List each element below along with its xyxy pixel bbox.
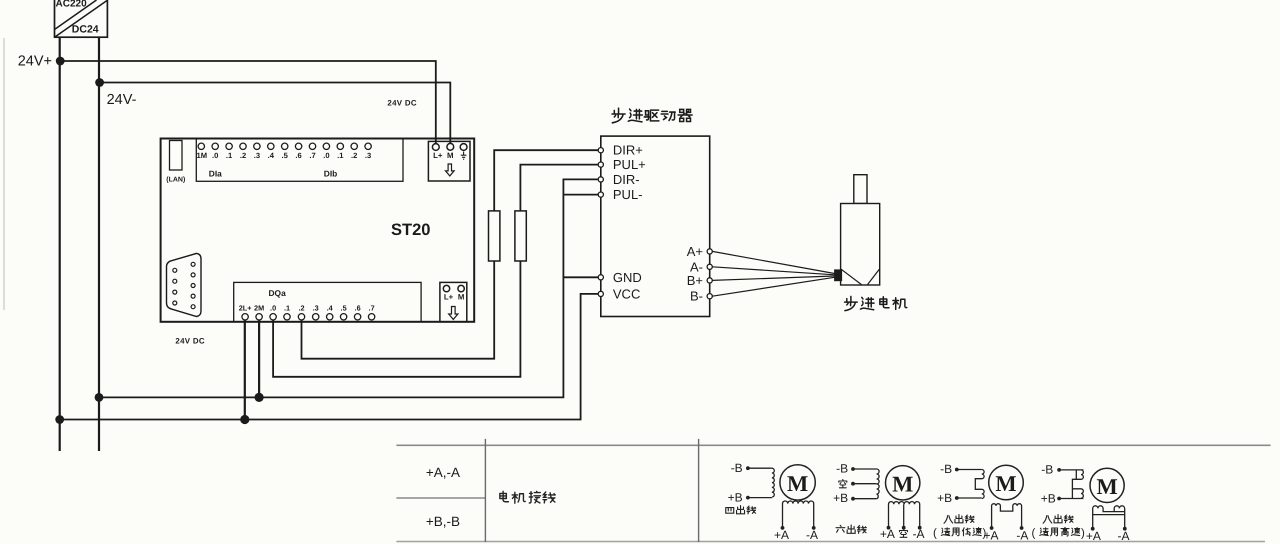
svg-text:-A: -A [913,527,925,541]
stepper motor shaft [854,175,867,204]
DQ terminal circles [242,314,375,320]
coil A horizontal with legs [783,501,814,528]
svg-text:L+: L+ [433,151,443,160]
svg-text:DIb: DIb [324,169,338,179]
svg-text:DQa: DQa [269,288,287,298]
wire 24V+ bottom bus to VCC [60,294,599,420]
svg-text:AC220: AC220 [56,0,88,10]
DQ terminal labels [239,304,375,313]
DB9 serial connector [167,253,202,316]
svg-text:DIa: DIa [209,169,222,179]
coil B vertical [772,468,774,497]
svg-text:2M: 2M [254,304,264,313]
PSU diagonal 1 [55,1,108,38]
junction dot 24V- bottom-left [95,393,104,402]
svg-text:+A: +A [774,528,789,542]
table divider 1 [484,439,486,542]
wire center tap lead [853,483,877,485]
wire 24V+ bus to L+ [60,61,436,144]
svg-text:-B: -B [731,461,743,475]
svg-text:+B: +B [937,491,952,505]
top L+ M block circles [432,143,467,150]
svg-text:.1: .1 [284,304,290,313]
svg-text:-B: -B [940,462,952,476]
wire DQ.2 to resistor R1 to DIR+ [302,261,495,359]
svg-text:PUL-: PUL- [613,187,643,202]
label eight-wire (Chinese) [944,515,974,524]
svg-text:.7: .7 [309,151,315,160]
label four-wire (Chinese) [726,506,756,514]
junction dot 24V+ top [56,57,65,66]
svg-text:.3: .3 [313,304,319,313]
svg-text:.2: .2 [298,304,304,313]
wire -B lead [853,468,877,470]
bottom block down arrow [449,307,458,320]
motor wires fan A+ A- B+ B- [712,251,834,296]
wire 24V- bus to M [99,83,450,145]
svg-text:.6: .6 [295,151,301,160]
svg-text:-B: -B [836,462,848,476]
PSU diagonal 2 [55,0,97,30]
driver right terminal circles [707,249,712,299]
wire 2M drop [258,319,260,397]
PLC bottom-right L+ M terminal block [440,282,467,321]
lead dots six-wire [851,467,855,471]
junction dot 24V+ bottom-left [55,415,64,424]
svg-text:+B: +B [1041,492,1056,506]
DI terminal strip [196,139,403,182]
faint scan artifact line left edge [3,38,5,310]
svg-text:DIR-: DIR- [613,172,640,187]
coil A horizontal with legs [888,502,919,528]
coil B series pair [975,470,984,499]
svg-text:24V DC: 24V DC [387,98,416,107]
svg-text:.1: .1 [226,151,233,160]
coil B vertical [877,469,880,499]
svg-text:-A: -A [806,528,818,542]
wire -B lead [957,469,982,471]
ground symbol [461,152,467,160]
coil A series pair with legs [992,504,1022,528]
svg-text:.5: .5 [341,304,347,313]
DI terminal circles row [198,143,371,149]
svg-text:DC24: DC24 [72,23,99,35]
svg-text:24V DC: 24V DC [175,337,204,346]
wire -B lead [748,467,772,469]
junction dot 24V- top [95,78,104,87]
svg-text:M: M [447,151,454,160]
LAN port [170,141,183,171]
wire +B lead [957,497,982,499]
svg-text:.6: .6 [355,304,361,313]
label motor wiring (Chinese) [500,491,555,503]
junction dot 2L+ [240,415,249,424]
svg-text:PUL+: PUL+ [613,157,646,172]
svg-text:.7: .7 [369,304,375,313]
resistor R1 [489,211,500,261]
svg-text:.0: .0 [212,151,218,160]
svg-text:1M: 1M [197,151,208,160]
svg-text:M: M [458,293,465,302]
label stepper motor (Chinese) [845,296,907,310]
DI terminal labels [197,151,372,160]
junction dot 2M [255,393,264,402]
wire -B lead [1059,469,1083,471]
svg-text:M: M [1096,474,1117,499]
table middle border [396,497,485,499]
svg-text:M: M [892,471,913,496]
motor bottom chamfer lines [841,269,862,285]
svg-text:+A,-A: +A,-A [426,465,460,480]
top block down arrow [446,164,455,176]
wire 2L+ drop [244,319,246,419]
svg-text:24V+: 24V+ [18,54,52,70]
svg-text:): ) [983,528,987,540]
lead dots low-speed [955,468,959,472]
wire GND stub [563,276,598,278]
svg-text:M: M [995,471,1016,496]
stepper driver box [601,136,710,316]
label kong bottom (Chinese) [900,529,908,537]
table divider 2 [698,439,700,542]
svg-text:24V-: 24V- [107,92,137,108]
bottom L+ M block circles [443,285,464,291]
svg-text:.4: .4 [268,151,275,160]
stepper motor body [841,204,880,286]
svg-text:2L+: 2L+ [239,304,252,313]
PLC top-right L+ M terminal block [428,141,470,181]
motor circle M3 [989,465,1024,500]
svg-text:-B: -B [1041,463,1053,477]
svg-text:(: ( [1032,528,1036,540]
label six-wire (Chinese) [836,525,866,533]
resistor R2 [515,211,526,261]
wire 24V- rail vertical [98,37,100,451]
PLC bottom DQa terminal strip [234,282,421,321]
lead dot -B [746,466,750,470]
svg-text:.0: .0 [270,304,276,313]
svg-text:+B: +B [728,491,743,505]
svg-text:+B: +B [833,491,848,505]
wire +B lead [853,498,877,500]
svg-text:+B,-B: +B,-B [426,514,460,529]
svg-text:.0: .0 [323,151,329,160]
svg-text:+A: +A [1086,529,1101,543]
coil B parallel link [1075,470,1077,479]
wire 24V+ rail vertical [59,37,61,451]
motor circle M4 [1090,468,1124,502]
svg-text:ST20: ST20 [391,221,430,239]
svg-text:VCC: VCC [613,286,640,301]
svg-text:.5: .5 [282,151,289,160]
svg-text:): ) [1081,528,1085,540]
lead dot +A [781,526,785,530]
motor circle M1 [780,465,815,500]
label stepper driver (Chinese) [612,108,692,123]
svg-text:B+: B+ [687,273,703,288]
table top border [396,444,1270,446]
wire PUL- stub [563,194,598,196]
wire 24V- bottom bus to DIR-/PUL-/GND common [99,179,599,397]
driver right pin labels [687,244,703,304]
svg-text:+A: +A [880,527,895,541]
table bottom border [396,541,1265,543]
power supply PSU AC220/DC24 [55,0,108,37]
PLC box ST20 [161,139,475,322]
svg-text:B-: B- [690,289,703,304]
driver left pin labels [613,143,646,302]
wire +B lead [1059,498,1083,500]
label kong left (Chinese) [839,480,847,488]
coil A parallel pair with legs [1093,506,1125,529]
lead dots high-speed [1057,468,1061,472]
svg-text:-A: -A [1016,529,1028,543]
svg-text:.2: .2 [240,151,246,160]
svg-text:-A: -A [1118,529,1130,543]
motor circle M2 [886,466,920,500]
svg-text:.1: .1 [337,151,344,160]
svg-text:(LAN): (LAN) [166,176,185,184]
svg-text:.3: .3 [254,151,260,160]
coil A parallel link [1093,514,1125,516]
wire +B lead [748,497,772,499]
lead dot +B [746,496,750,500]
svg-text:A+: A+ [687,244,703,259]
wire A center tap [903,504,905,528]
coil B parallel pair [1072,470,1083,498]
label eight-wire (Chinese) [1043,515,1073,524]
svg-text:L+: L+ [444,293,454,302]
wire DQ.0 to resistor R2 to PUL+ [273,261,520,377]
svg-text:M: M [787,471,808,496]
svg-text:.2: .2 [351,151,357,160]
lead dot -A [812,526,816,530]
svg-text:DIR+: DIR+ [613,143,643,158]
svg-text:.4: .4 [327,304,334,313]
svg-text:.3: .3 [365,151,371,160]
svg-text:(: ( [933,528,937,540]
svg-text:GND: GND [613,270,642,285]
driver left terminal circles [598,148,603,297]
motor connector black square [834,269,842,281]
